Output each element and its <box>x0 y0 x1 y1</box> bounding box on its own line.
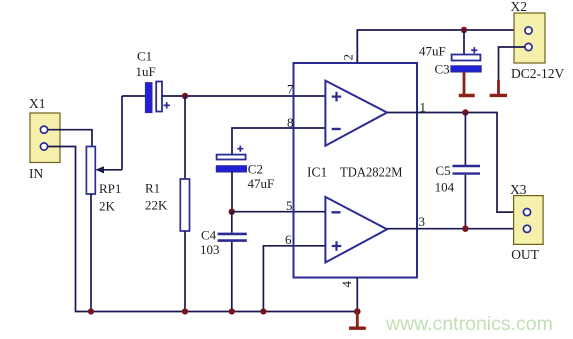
wire junction down to R1 <box>184 96 186 179</box>
ground (main) <box>349 312 366 329</box>
wire pin 7 (C1 to IC +input) <box>162 95 325 97</box>
svg-text:7: 7 <box>287 82 294 97</box>
op-amp B (bottom half) <box>325 197 387 263</box>
node junction rail/R1 <box>182 308 188 314</box>
IC1 box <box>294 63 418 278</box>
svg-text:RP1: RP1 <box>99 181 121 196</box>
node junction C2/C4/pin5 <box>229 209 235 215</box>
ground (C3) <box>459 72 475 96</box>
resistor R1 <box>145 179 190 231</box>
RP1 wiper arrow and wire up to C1 left terminal <box>95 96 122 173</box>
wire pin 4 down to ground rail <box>356 278 358 312</box>
connector X2 <box>511 0 565 81</box>
svg-text:X1: X1 <box>29 96 46 111</box>
capacitor C3 <box>419 30 481 77</box>
svg-text:22K: 22K <box>145 198 168 213</box>
wire R1 bottom to ground rail <box>184 231 186 312</box>
svg-text:1uF: 1uF <box>136 64 156 79</box>
capacitor C4 <box>200 212 247 312</box>
potentiometer RP1 <box>86 147 121 214</box>
wire X1 bottom pin down to ground rail <box>48 147 358 312</box>
svg-text:C4: C4 <box>201 228 217 243</box>
svg-text:4: 4 <box>339 281 354 288</box>
svg-text:3: 3 <box>419 214 426 229</box>
svg-text:5: 5 <box>286 198 293 213</box>
wire pin 2 up and supply rail to X2 <box>357 30 525 63</box>
svg-text:C5: C5 <box>436 163 451 178</box>
wire pin 1 output to X3 top <box>387 113 524 213</box>
node junction pin1/C5 <box>462 109 468 115</box>
wire X1 top pin to RP1 top <box>48 130 93 147</box>
svg-text:DC2-12V: DC2-12V <box>511 66 564 81</box>
wire X2 bottom pin to ground <box>499 47 526 82</box>
node junction C1/R1/pin7 <box>182 93 188 99</box>
svg-text:8: 8 <box>287 115 294 130</box>
node junction rail/C3 <box>461 27 467 33</box>
svg-text:www.cntronics.com: www.cntronics.com <box>385 313 553 335</box>
svg-text:IN: IN <box>29 166 43 181</box>
svg-text:47uF: 47uF <box>248 176 275 191</box>
wire pin 6 <box>263 246 325 312</box>
svg-text:R1: R1 <box>145 181 160 196</box>
svg-text:47uF: 47uF <box>419 44 446 59</box>
node junction rail/C4 <box>229 308 235 314</box>
capacitor C5 <box>435 113 480 229</box>
node junction pin3/C5 <box>462 226 468 232</box>
svg-text:C2: C2 <box>248 161 263 176</box>
node junction rail/ground <box>354 308 361 315</box>
wire pin 5 <box>232 211 326 213</box>
svg-text:X2: X2 <box>511 0 528 14</box>
capacitor C1 <box>122 49 170 113</box>
svg-text:6: 6 <box>285 232 292 247</box>
svg-text:C1: C1 <box>137 49 152 64</box>
wire pin 3 output to X3 bottom <box>387 228 524 230</box>
svg-text:TDA2822M: TDA2822M <box>340 165 403 180</box>
svg-text:IC1: IC1 <box>307 165 327 180</box>
node junction rail/pin6 <box>260 308 266 314</box>
ground (X2) <box>490 80 507 95</box>
wire pin 8 (C2 top to IC -input) <box>232 128 325 155</box>
svg-text:2: 2 <box>341 54 356 61</box>
connector X1 <box>29 96 60 181</box>
capacitor C2 <box>216 146 274 212</box>
op-amp A (top half) <box>325 81 387 146</box>
svg-text:C3: C3 <box>435 62 450 77</box>
connector X3 <box>510 182 543 262</box>
node junction rail/RP1 <box>88 308 94 314</box>
svg-text:X3: X3 <box>510 182 527 197</box>
svg-text:2K: 2K <box>99 199 116 214</box>
svg-text:OUT: OUT <box>511 247 539 262</box>
wire RP1 bottom to ground rail <box>90 194 92 312</box>
svg-text:104: 104 <box>435 180 455 195</box>
svg-text:103: 103 <box>200 242 220 257</box>
